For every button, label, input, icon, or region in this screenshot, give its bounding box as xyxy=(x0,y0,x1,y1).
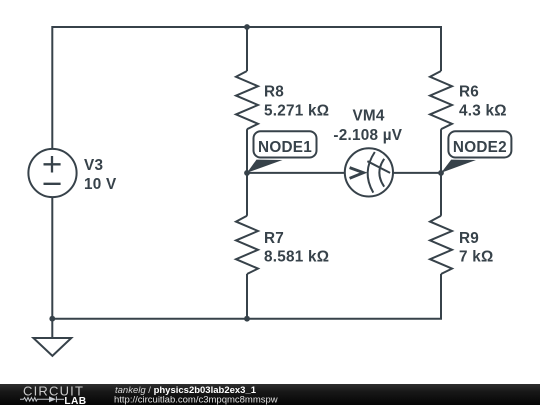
NODE1 callout box xyxy=(254,131,317,157)
CircuitLab logo resistor zigzag and diode xyxy=(20,396,64,402)
V3 plus sign xyxy=(44,156,61,173)
wire voltmeter right terminal to NODE2 xyxy=(393,172,442,174)
svg-text:VM4: VM4 xyxy=(352,108,384,125)
svg-text:R7: R7 xyxy=(264,230,284,247)
CircuitLab logo diode triangle xyxy=(49,396,56,402)
svg-text:10 V: 10 V xyxy=(84,176,117,193)
NODE2 callout box xyxy=(448,131,511,157)
svg-text:R6: R6 xyxy=(459,84,479,101)
voltmeter VM4 long arc xyxy=(368,152,375,193)
svg-text:8.581 kΩ: 8.581 kΩ xyxy=(264,248,329,265)
NODE1 callout tail xyxy=(247,160,283,173)
svg-text:http://circuitlab.com/c3mpqmc8: http://circuitlab.com/c3mpqmc8mmspw xyxy=(114,394,278,405)
wire ground stub xyxy=(51,319,53,338)
resistor R9 body xyxy=(430,216,452,274)
junction dot top middle xyxy=(244,24,250,30)
svg-text:4.3 kΩ: 4.3 kΩ xyxy=(459,102,507,119)
wire NODE1 to voltmeter left terminal xyxy=(247,172,346,174)
svg-text:R9: R9 xyxy=(459,230,479,247)
V3 minus sign xyxy=(44,183,61,185)
wire middle branch mid (R8 to R7 through NODE1) xyxy=(246,129,248,216)
svg-text:NODE2: NODE2 xyxy=(453,139,507,156)
ground symbol xyxy=(33,338,71,356)
voltmeter VM4 needle xyxy=(367,161,390,173)
wire top horizontal with left and right risers xyxy=(52,27,441,149)
voltmeter VM4 short arc xyxy=(379,159,384,187)
voltmeter VM4 chevron xyxy=(350,168,364,179)
svg-text:-2.108 µV: -2.108 µV xyxy=(333,127,402,144)
junction dot bottom middle xyxy=(244,316,250,322)
svg-text:LAB: LAB xyxy=(64,396,86,405)
resistor R6 body xyxy=(430,71,452,129)
wire middle branch upper (top wire to R8) xyxy=(246,27,248,71)
svg-text:5.271 kΩ: 5.271 kΩ xyxy=(264,102,329,119)
junction dot bottom left xyxy=(49,316,55,322)
svg-text:V3: V3 xyxy=(84,157,103,174)
svg-text:R8: R8 xyxy=(264,84,284,101)
junction dot NODE1 xyxy=(244,170,250,176)
resistor R8 body xyxy=(236,71,258,129)
NODE2 callout tail xyxy=(441,160,476,173)
wire bottom horizontal with left and right risers xyxy=(52,198,441,319)
svg-text:7 kΩ: 7 kΩ xyxy=(459,248,494,265)
svg-text:NODE1: NODE1 xyxy=(258,139,312,156)
wire right branch mid (R6 to R9 through NODE2) xyxy=(440,129,442,216)
wire middle branch lower (R7 to bottom wire) xyxy=(246,274,248,319)
voltmeter VM4 circle xyxy=(345,148,393,196)
junction dot NODE2 xyxy=(438,170,444,176)
voltage source V3 circle xyxy=(28,149,76,197)
resistor R7 body xyxy=(236,216,258,274)
